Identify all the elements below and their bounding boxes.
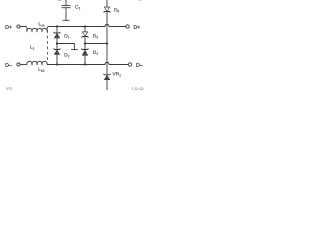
- top edge remnant left: [58, 0, 62, 1]
- zener VR1: [104, 74, 110, 91]
- inductor L1b: [27, 61, 47, 64]
- caption fragment bottom left: [6, 87, 12, 89]
- terminal D+ right: [126, 25, 129, 28]
- label VR1: [113, 72, 121, 76]
- label D3: [93, 34, 98, 38]
- zener D3: [82, 28, 88, 43]
- zener D1: [54, 28, 60, 43]
- zener D4: [82, 44, 88, 64]
- terminal D- left: [17, 63, 20, 66]
- junction dot: [106, 42, 108, 44]
- junction dot: [84, 25, 86, 27]
- label D- left: [6, 63, 12, 67]
- label D+ right: [134, 25, 140, 29]
- label D2: [65, 53, 70, 57]
- wire: [109, 64, 128, 66]
- caption fragment bottom right: [131, 88, 144, 91]
- wire top bus: [50, 26, 105, 28]
- chassis: [71, 49, 78, 51]
- wire bottom bus: [47, 64, 105, 66]
- junction dot: [84, 42, 86, 44]
- junction dot: [56, 25, 58, 27]
- zener D2: [54, 44, 60, 64]
- wire: [109, 26, 126, 28]
- wire: [20, 27, 27, 32]
- terminal D- right: [128, 63, 131, 66]
- capacitor C1: [62, 0, 71, 20]
- diode D5 vertical branch: [104, 0, 110, 75]
- wire hop over vertical: [105, 24, 109, 26]
- chassis: [63, 19, 70, 21]
- junction dot: [56, 63, 58, 65]
- top edge remnant right: [139, 0, 142, 1]
- terminal D+ left: [17, 25, 20, 28]
- core coupling dashed line: [47, 30, 49, 61]
- wire hop over vertical: [105, 62, 109, 64]
- label C1: [75, 5, 80, 9]
- wire to chassis stub: [58, 44, 74, 50]
- wire: [20, 64, 27, 66]
- wire: [47, 27, 50, 32]
- label D+ left: [6, 25, 12, 29]
- label D4: [93, 51, 98, 55]
- label L1b: [39, 68, 45, 72]
- label D1: [65, 34, 70, 38]
- inductor L1a: [27, 28, 47, 31]
- wire: [85, 43, 107, 45]
- label L1a: [39, 22, 45, 26]
- junction dot: [56, 42, 58, 44]
- label D5: [114, 8, 119, 12]
- label L1: [30, 45, 34, 49]
- label D- right: [136, 63, 142, 67]
- junction dot: [84, 63, 86, 65]
